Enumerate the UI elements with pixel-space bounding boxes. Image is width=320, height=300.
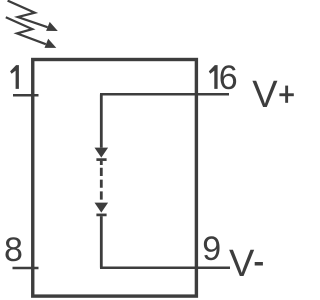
dashed continuation wire (diodes 2..15 implied)	[100, 168, 103, 203]
photodiode D16 cathode bar	[96, 214, 106, 217]
incident light arrow A2 (lower zigzag)	[6, 17, 46, 44]
package outline U1 (16-pin photodiode array body)	[33, 60, 197, 297]
pin 16 label (digit 1)	[209, 65, 218, 89]
pin 8 lead	[13, 267, 39, 270]
pin 1 lead	[13, 94, 39, 97]
wire stub below D1	[100, 161, 103, 165]
pin 9 lead / V- bus wire	[100, 266, 230, 269]
incident light arrow A1 (upper zigzag)	[8, 1, 48, 28]
photodiode D16 triangle (anode)	[95, 203, 109, 213]
svg-text:V: V	[229, 243, 255, 285]
photodiode D1 triangle (anode)	[95, 148, 109, 158]
svg-text:8: 8	[4, 231, 23, 269]
net label V- (minus sign)	[255, 262, 263, 266]
net label V+ (plus sign)	[279, 93, 293, 96]
photodiode D1 cathode bar	[96, 158, 106, 161]
wire from D16 cathode down to V- bus	[100, 216, 103, 268]
svg-text:V: V	[252, 74, 278, 116]
wire from V+ bus down to photodiode D1 anode	[100, 94, 103, 147]
incident light arrow A1 head	[46, 22, 58, 31]
incident light arrow A2 head	[45, 39, 57, 48]
svg-text:6: 6	[219, 59, 238, 97]
pin 16 lead / V+ bus wire	[100, 93, 229, 96]
pin 1 label	[10, 65, 19, 89]
svg-text:9: 9	[202, 230, 221, 268]
